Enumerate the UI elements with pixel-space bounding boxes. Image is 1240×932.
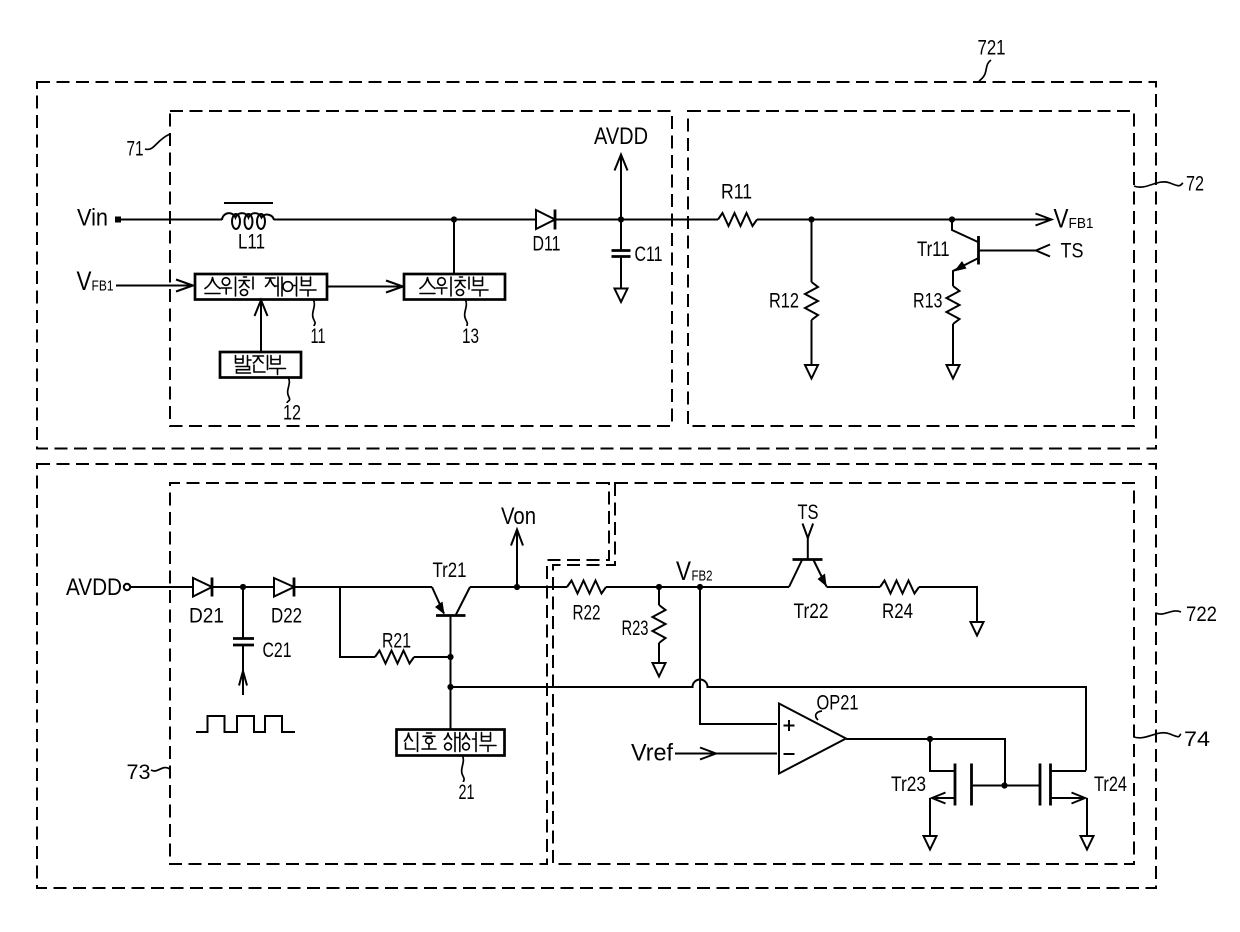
svg-text:721: 721	[978, 37, 1006, 60]
svg-text:D21: D21	[189, 605, 224, 628]
svg-text:AVDD: AVDD	[594, 123, 648, 150]
node junction dot op-amp output	[927, 736, 933, 742]
wire branch down to R21	[340, 587, 375, 657]
svg-text:R11: R11	[721, 181, 752, 204]
capacitor C21	[233, 587, 254, 645]
svg-text:C11: C11	[635, 243, 663, 266]
wire VFB1 into switching control	[116, 285, 192, 287]
arrowhead TS into Tr22 base (pointing down)	[803, 524, 814, 539]
resistor R23	[653, 587, 666, 662]
wire Vin to inductor	[121, 219, 222, 221]
power AVDD arrow	[615, 155, 628, 220]
leader squiggle 13	[465, 300, 468, 326]
svg-text:722: 722	[1186, 603, 1217, 626]
wire feedback line to Tr24 drain	[451, 680, 1087, 771]
svg-text:Tr23: Tr23	[891, 773, 926, 796]
svg-text:OP21: OP21	[817, 692, 859, 715]
diode D22	[274, 578, 294, 597]
node junction dot Tr11 tap	[949, 216, 955, 222]
resistor R24	[880, 581, 919, 594]
svg-text:V: V	[676, 556, 691, 586]
svg-text:11: 11	[311, 325, 326, 348]
wire D11 to R11	[555, 219, 718, 221]
wire oscillator to control (arrow up)	[255, 300, 268, 352]
svg-text:Tr21: Tr21	[433, 559, 467, 582]
svg-text:21: 21	[459, 781, 475, 804]
transistor Tr21	[432, 587, 470, 731]
transistor Tr11	[952, 220, 1036, 287]
svg-text:R24: R24	[882, 600, 913, 623]
transistor Tr23 (MOSFET)	[930, 764, 972, 836]
wire AVDD to D21	[131, 586, 194, 588]
svg-text:V: V	[77, 266, 92, 296]
wire D22 to Tr21	[294, 586, 432, 588]
svg-text:Vref: Vref	[631, 740, 673, 767]
leader squiggle 72	[1134, 182, 1183, 187]
leader squiggle 21	[462, 756, 465, 782]
svg-text:Tr11: Tr11	[917, 238, 950, 261]
dashed box (feedback sub-block of 72)	[688, 111, 1134, 426]
leader squiggle OP21	[816, 711, 822, 720]
wire control to switch block	[327, 286, 402, 288]
wire output dot down to Tr23 drain	[930, 739, 954, 771]
svg-text:FB1: FB1	[1069, 215, 1094, 232]
block signal generator (21)	[397, 730, 505, 756]
leader squiggle 721	[979, 60, 991, 81]
ground under R24	[971, 622, 984, 636]
svg-text:FB1: FB1	[92, 278, 114, 295]
node junction dot C21 tap	[240, 584, 246, 590]
leader squiggle 73	[151, 768, 170, 771]
node junction dot R12 tap	[808, 216, 814, 222]
node junction dot (switch tap)	[451, 216, 457, 222]
ground under C11	[615, 289, 628, 303]
text 스위칭부	[420, 277, 488, 296]
capacitor C11	[612, 220, 631, 289]
arrowhead TS input (pointing left)	[1036, 245, 1050, 257]
node junction dot feedback line	[447, 684, 453, 690]
leader squiggle 11	[313, 300, 315, 326]
svg-text:13: 13	[462, 325, 479, 348]
svg-text:R21: R21	[382, 630, 411, 653]
svg-text:Tr22: Tr22	[794, 600, 829, 623]
inductor L11	[222, 203, 274, 229]
node junction dot R23 tap	[656, 584, 662, 590]
resistor R13	[947, 286, 960, 364]
leader squiggle 722	[1156, 611, 1181, 614]
dashed box 73 (Von generator block)	[170, 483, 609, 864]
clock input arrow into C21	[239, 645, 247, 695]
wire D21 to D22	[212, 586, 274, 588]
svg-text:Vin: Vin	[77, 205, 108, 232]
dashed box 722 (outer bottom block)	[37, 464, 1156, 888]
ground under R23	[653, 663, 666, 677]
wire inductor to diode D11	[274, 219, 536, 221]
AVDD terminal circle	[124, 584, 130, 590]
svg-text:72: 72	[1186, 173, 1204, 196]
svg-text:D11: D11	[533, 233, 561, 256]
svg-text:TS: TS	[798, 501, 819, 524]
Vin terminal square	[115, 217, 121, 223]
arrowhead Vref input	[700, 748, 716, 760]
svg-text:V: V	[1054, 204, 1069, 234]
svg-text:R23: R23	[622, 617, 649, 640]
resistor R22	[567, 581, 606, 594]
text 신호 생성부	[405, 733, 497, 752]
resistor R21	[375, 651, 414, 664]
node junction dot VFB2	[697, 584, 703, 590]
block oscillator (12)	[220, 352, 301, 378]
wire VFB2 down to op-amp + input	[700, 587, 777, 724]
arrowhead into switch box	[386, 281, 403, 293]
node junction dot Von	[514, 584, 520, 590]
wire tap down to switching block	[453, 220, 455, 274]
ground under R13	[947, 365, 960, 379]
wire R24 to ground drop	[919, 587, 977, 621]
clock square wave symbol	[196, 716, 295, 732]
svg-text:R13: R13	[913, 290, 943, 313]
svg-text:R12: R12	[769, 290, 799, 313]
leader squiggle 74	[1134, 733, 1181, 738]
svg-text:71: 71	[127, 138, 144, 161]
svg-text:TS: TS	[1061, 240, 1084, 263]
svg-text:C21: C21	[263, 639, 292, 662]
wire R22 to Tr22	[606, 586, 789, 588]
svg-text:AVDD: AVDD	[66, 574, 122, 601]
text 발진부	[236, 356, 286, 375]
diode D11	[536, 210, 555, 230]
wire gate line Tr23-Tr24	[972, 785, 1041, 787]
wire R11 to VFB1 arrow	[757, 219, 1050, 221]
leader squiggle 12	[287, 378, 290, 403]
svg-text:R22: R22	[573, 602, 601, 625]
dashed box 74 (feedback block)	[553, 483, 1134, 864]
arrowhead into switching control box	[176, 280, 193, 292]
resistor R11	[718, 213, 757, 226]
node junction dot R21/base	[447, 654, 453, 660]
block switching unit (13)	[404, 274, 505, 300]
wire op-amp output to gates	[846, 739, 1005, 786]
svg-text:Tr24: Tr24	[1094, 773, 1127, 796]
diode D21	[193, 578, 212, 597]
svg-text:L11: L11	[238, 231, 265, 254]
block switching control unit (11)	[195, 274, 327, 300]
arrowhead VFB1 output	[1036, 214, 1052, 226]
wire R21 to Tr21 base node	[414, 656, 451, 658]
ground under Tr24	[1081, 836, 1094, 850]
svg-text:74: 74	[1184, 728, 1210, 751]
svg-text:Von: Von	[501, 503, 536, 530]
node junction dot AVDD/C11	[618, 216, 624, 222]
transistor Tr24 (MOSFET)	[1040, 764, 1087, 836]
dashed box 72 (outer top block)	[37, 82, 1156, 449]
node Von arrow	[511, 530, 523, 588]
dashed box 71 (switching converter block)	[170, 111, 672, 426]
text 스위칭 제어부	[205, 277, 316, 296]
node junction dot gate	[1001, 782, 1007, 788]
ground under Tr23	[924, 836, 937, 850]
svg-text:D22: D22	[271, 605, 302, 628]
resistor R12	[805, 220, 818, 365]
wire Tr22 to R24	[827, 586, 881, 588]
svg-text:FB2: FB2	[692, 568, 713, 585]
wire Vref to op-amp - input	[675, 753, 777, 755]
op-amp OP21	[779, 704, 846, 774]
ground under R12	[805, 365, 818, 379]
leader squiggle 71	[145, 134, 170, 149]
svg-text:12: 12	[283, 402, 301, 425]
wire Tr21 to R22 (Von rail)	[470, 586, 567, 588]
transistor Tr22	[789, 538, 827, 587]
svg-text:73: 73	[127, 761, 151, 784]
